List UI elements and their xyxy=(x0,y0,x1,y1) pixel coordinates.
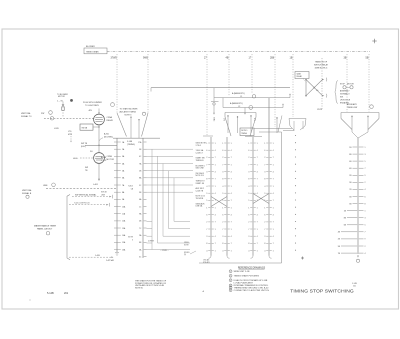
svg-text:7: 7 xyxy=(264,229,265,231)
svg-text:NOTE B.: NOTE B. xyxy=(135,288,143,290)
connector bar xyxy=(113,137,160,139)
svg-text:4: 4 xyxy=(215,150,216,152)
svg-text:5: 5 xyxy=(365,161,366,163)
svg-text:(SEE NOTE 2): (SEE NOTE 2) xyxy=(315,67,328,69)
svg-text:TIMING: TIMING xyxy=(241,133,248,135)
wire long vertical xyxy=(281,132,283,263)
svg-text:6: 6 xyxy=(206,215,207,217)
svg-text:6: 6 xyxy=(248,215,249,217)
svg-text:5: 5 xyxy=(230,287,231,289)
wire drop 4B xyxy=(228,54,230,96)
svg-text:1: 1 xyxy=(231,229,232,231)
svg-text:TO LIGHT REPL: TO LIGHT REPL xyxy=(85,105,99,107)
svg-text:7: 7 xyxy=(273,222,274,224)
svg-text:1: 1 xyxy=(273,186,274,188)
svg-text:4: 4 xyxy=(273,193,274,195)
svg-text:1: 1 xyxy=(215,250,216,252)
wire top dashed bus xyxy=(107,51,370,53)
wire power dashed xyxy=(44,117,94,119)
svg-text:1: 1 xyxy=(257,164,258,166)
svg-text:3: 3 xyxy=(365,218,366,220)
wire drop 27 xyxy=(206,54,208,136)
svg-text:1: 1 xyxy=(257,143,258,145)
svg-text:SW 4B: SW 4B xyxy=(101,192,107,194)
svg-text:RELAY: RELAY xyxy=(107,119,114,122)
svg-text:TIMING START FIXTURES: TIMING START FIXTURES xyxy=(234,275,260,278)
svg-text:2B6: 2B6 xyxy=(270,57,275,60)
svg-text:3: 3 xyxy=(264,236,265,238)
svg-text:REFERENCE DRAWINGS: REFERENCE DRAWINGS xyxy=(238,266,266,269)
wire elbows top right xyxy=(254,127,292,129)
wire drop 37W5 xyxy=(116,54,118,113)
svg-text:(TIMING): (TIMING) xyxy=(127,144,135,146)
transfer contacts X xyxy=(305,79,307,96)
svg-text:9: 9 xyxy=(206,193,207,195)
svg-text:SW TB: SW TB xyxy=(81,143,88,145)
svg-text:UNTOGGLE: UNTOGGLE xyxy=(340,100,351,102)
svg-text:NOTE 5: NOTE 5 xyxy=(241,130,247,132)
svg-text:5-14B LT: 5-14B LT xyxy=(196,152,204,154)
svg-text:7: 7 xyxy=(273,243,274,245)
svg-text:TIMING STOP: TIMING STOP xyxy=(315,61,328,63)
box blower timing gear xyxy=(84,48,107,54)
svg-text:1: 1 xyxy=(257,229,258,231)
svg-text:LINE 2A: LINE 2A xyxy=(196,205,203,208)
svg-text:3: 3 xyxy=(365,154,366,156)
svg-text:1-4P 5A1: 1-4P 5A1 xyxy=(106,259,114,262)
svg-text:7: 7 xyxy=(365,168,366,170)
svg-text:4: 4 xyxy=(264,250,265,252)
svg-text:8: 8 xyxy=(206,179,207,181)
svg-text:1: 1 xyxy=(273,207,274,209)
svg-text:4: 4 xyxy=(257,236,258,238)
svg-text:1: 1 xyxy=(264,207,265,209)
svg-text:3: 3 xyxy=(248,236,249,238)
svg-text:4: 4 xyxy=(231,215,232,217)
cable ladder W1 xyxy=(114,138,126,252)
svg-text:1: 1 xyxy=(222,143,223,145)
wire bus row 1 xyxy=(151,87,290,89)
svg-text:1: 1 xyxy=(273,229,274,231)
svg-text:1: 1 xyxy=(264,143,265,145)
svg-text:7: 7 xyxy=(222,229,223,231)
svg-text:2: 2 xyxy=(264,157,265,159)
svg-text:7: 7 xyxy=(215,222,216,224)
svg-text:1: 1 xyxy=(231,250,232,252)
bracket maintenance group xyxy=(67,195,70,260)
svg-text:T-505 CONTROL B: T-505 CONTROL B xyxy=(74,202,90,204)
svg-text:BLOWER: BLOWER xyxy=(86,46,95,48)
svg-text:1: 1 xyxy=(215,207,216,209)
svg-text:9: 9 xyxy=(365,175,366,177)
svg-text:4: 4 xyxy=(215,215,216,217)
wire dotted continuation xyxy=(295,135,296,251)
svg-text:T-BLK: T-BLK xyxy=(128,186,134,188)
svg-text:2: 2 xyxy=(248,157,249,159)
svg-text:9: 9 xyxy=(264,193,265,195)
wire arrow to relay xyxy=(98,109,100,114)
svg-text:4: 4 xyxy=(215,236,216,238)
svg-text:7: 7 xyxy=(215,179,216,181)
wire row memory 1 xyxy=(214,97,290,99)
svg-text:6: 6 xyxy=(264,150,265,152)
svg-text:4: 4 xyxy=(273,150,274,152)
svg-text:MAINTENANCE TIMER: MAINTENANCE TIMER xyxy=(34,224,57,227)
svg-text:7: 7 xyxy=(264,164,265,166)
svg-text:3: 3 xyxy=(132,240,133,242)
wire relay down xyxy=(98,125,100,153)
svg-text:MOTOR: MOTOR xyxy=(107,159,115,161)
svg-text:SWITCH RELAY: SWITCH RELAY xyxy=(314,63,329,66)
svg-text:7: 7 xyxy=(215,243,216,245)
wire drop 3B xyxy=(346,54,348,112)
svg-text:5-14B: 5-14B xyxy=(47,292,54,295)
wire drop 2B6 xyxy=(274,54,276,127)
svg-text:9W5: 9W5 xyxy=(143,57,149,60)
svg-text:1: 1 xyxy=(215,229,216,231)
svg-text:VERTICAL: VERTICAL xyxy=(21,112,32,115)
svg-text:8: 8 xyxy=(222,243,223,245)
svg-text:⊘SW: ⊘SW xyxy=(54,127,59,130)
motor CR5B xyxy=(94,153,105,164)
label column wires xyxy=(196,143,207,208)
svg-text:4: 4 xyxy=(273,236,274,238)
svg-text:1: 1 xyxy=(257,250,258,252)
svg-text:NOTE 3 B: NOTE 3 B xyxy=(196,175,205,177)
svg-text:1B: 1B xyxy=(290,57,293,60)
svg-text:2: 2 xyxy=(222,157,223,159)
svg-text:4: 4 xyxy=(365,253,366,255)
svg-text:6: 6 xyxy=(230,290,231,292)
svg-text:7: 7 xyxy=(273,200,274,202)
svg-text:7: 7 xyxy=(273,157,274,159)
svg-text:6: 6 xyxy=(264,215,265,217)
svg-text:1: 1 xyxy=(222,207,223,209)
svg-text:MOTOR: MOTOR xyxy=(347,84,354,86)
svg-text:5-14B: 5-14B xyxy=(352,283,358,285)
svg-text:4: 4 xyxy=(257,215,258,217)
terminal strip TS4 xyxy=(264,98,273,256)
svg-text:4: 4 xyxy=(231,172,232,174)
svg-text:A (MEMORY): A (MEMORY) xyxy=(232,92,245,95)
svg-text:7: 7 xyxy=(215,200,216,202)
svg-text:WIRE UNIT 5-1B: WIRE UNIT 5-1B xyxy=(234,271,250,273)
svg-text:1: 1 xyxy=(215,164,216,166)
svg-text:2: 2 xyxy=(206,157,207,159)
svg-text:PW: PW xyxy=(41,113,44,115)
note box xyxy=(240,128,254,136)
svg-text:7: 7 xyxy=(257,157,258,159)
svg-text:-BLK-: -BLK- xyxy=(73,158,78,160)
wire drop 17 xyxy=(251,54,253,94)
ground ladder bottom xyxy=(115,252,119,254)
wire crossover X2 xyxy=(253,194,269,204)
svg-text:9: 9 xyxy=(248,193,249,195)
svg-text:8: 8 xyxy=(248,179,249,181)
svg-text:NOTE: NOTE xyxy=(128,237,134,239)
svg-text:7: 7 xyxy=(231,243,232,245)
svg-text:1: 1 xyxy=(365,210,366,212)
svg-text:LT15R: LT15R xyxy=(101,160,107,162)
svg-text:LINE: LINE xyxy=(43,185,48,187)
svg-text:MTR: MTR xyxy=(68,134,73,136)
svg-text:TIMING GEAR: TIMING GEAR xyxy=(86,50,99,53)
svg-text:TB 5W1B: TB 5W1B xyxy=(196,198,204,200)
wire crossover X1 xyxy=(211,197,227,207)
terminal strip TS1 xyxy=(206,137,215,256)
connector housing J3 xyxy=(289,118,306,120)
wire stubs xyxy=(213,88,215,98)
svg-text:37W5: 37W5 xyxy=(111,57,118,60)
svg-text:AUX ASSY TIMING: AUX ASSY TIMING xyxy=(120,110,137,113)
svg-text:4: 4 xyxy=(215,172,216,174)
svg-text:START 4B: START 4B xyxy=(196,182,205,185)
svg-text:1: 1 xyxy=(206,143,207,145)
svg-text:1: 1 xyxy=(273,250,274,252)
ground strip bottom xyxy=(357,256,359,258)
svg-text:L-401: L-401 xyxy=(93,184,98,186)
svg-text:8: 8 xyxy=(222,179,223,181)
svg-text:A 200: A 200 xyxy=(104,133,109,136)
svg-text:4: 4 xyxy=(215,193,216,195)
svg-text:9: 9 xyxy=(365,239,366,241)
svg-text:TIMING STOP SWITCHING: TIMING STOP SWITCHING xyxy=(290,288,354,294)
svg-text:ASSEMBLY: ASSEMBLY xyxy=(340,90,350,93)
svg-text:7: 7 xyxy=(257,222,258,224)
svg-text:PANEL LAYOUT: PANEL LAYOUT xyxy=(37,228,53,231)
svg-text:7: 7 xyxy=(231,179,232,181)
svg-text:8: 8 xyxy=(248,243,249,245)
svg-text:5: 5 xyxy=(222,200,223,202)
relay box K2 xyxy=(295,72,309,79)
wire drop 1B xyxy=(292,54,294,117)
svg-text:2: 2 xyxy=(230,276,231,278)
svg-text:4 WIRE: 4 WIRE xyxy=(148,240,155,242)
svg-text:1: 1 xyxy=(231,143,232,145)
svg-text:4: 4 xyxy=(231,193,232,195)
svg-text:7: 7 xyxy=(365,232,366,234)
svg-text:7: 7 xyxy=(206,229,207,231)
wire drop 9W5 xyxy=(147,54,149,113)
wire harness nest xyxy=(147,149,194,249)
svg-text:3: 3 xyxy=(264,172,265,174)
svg-text:SIGNAL B: SIGNAL B xyxy=(22,192,32,195)
svg-text:7: 7 xyxy=(257,179,258,181)
svg-text:3B: 3B xyxy=(344,57,347,60)
svg-text:5: 5 xyxy=(365,225,366,227)
svg-text:4: 4 xyxy=(231,150,232,152)
connector funnel P1 xyxy=(117,113,127,137)
svg-text:SW 5B: SW 5B xyxy=(82,127,88,129)
svg-text:AUXILIARY: AUXILIARY xyxy=(347,103,358,106)
svg-text:6: 6 xyxy=(222,215,223,217)
node junction J1 xyxy=(98,145,100,147)
svg-text:3: 3 xyxy=(248,172,249,174)
svg-text:7: 7 xyxy=(248,229,249,231)
terminal strip TS5 xyxy=(338,132,368,255)
svg-text:NOTE 3: NOTE 3 xyxy=(125,115,132,117)
wire drop 3G xyxy=(321,58,323,110)
terminal strip TB5 xyxy=(138,138,146,258)
svg-text:6: 6 xyxy=(222,150,223,152)
svg-text:8: 8 xyxy=(206,243,207,245)
svg-text:5: 5 xyxy=(248,200,249,202)
resistor R1 xyxy=(62,102,64,118)
svg-text:1: 1 xyxy=(273,164,274,166)
node plus marker top right xyxy=(372,40,376,42)
strip bottom hooks xyxy=(209,256,212,259)
svg-text:7: 7 xyxy=(248,164,249,166)
svg-text:3: 3 xyxy=(222,236,223,238)
svg-text:1: 1 xyxy=(231,164,232,166)
svg-text:1: 1 xyxy=(248,143,249,145)
svg-text:1: 1 xyxy=(230,271,231,273)
bracket right xyxy=(335,81,338,104)
svg-text:CONNECTED TO AUX PWR UNIT LN: CONNECTED TO AUX PWR UNIT LN xyxy=(234,289,270,292)
svg-text:VERTICAL: VERTICAL xyxy=(22,189,33,192)
svg-text:4: 4 xyxy=(248,250,249,252)
svg-text:(LBL): (LBL) xyxy=(81,146,86,148)
svg-text:4: 4 xyxy=(222,186,223,188)
wire drop 5B xyxy=(368,54,370,112)
svg-text:4: 4 xyxy=(365,189,366,191)
svg-text:201: 201 xyxy=(64,292,69,295)
svg-text:1: 1 xyxy=(215,186,216,188)
svg-text:5-40B: 5-40B xyxy=(95,255,101,257)
svg-text:SW: SW xyxy=(85,167,88,169)
svg-text:4: 4 xyxy=(257,193,258,195)
svg-text:AW5B: AW5B xyxy=(101,156,107,159)
svg-text:CR5B: CR5B xyxy=(107,156,113,158)
svg-text:7: 7 xyxy=(231,222,232,224)
svg-text:2: 2 xyxy=(222,222,223,224)
wire line dashed xyxy=(46,188,117,190)
svg-text:8: 8 xyxy=(264,179,265,181)
svg-text:RELAY: RELAY xyxy=(297,75,303,78)
terminal strip TS2 xyxy=(222,137,231,256)
svg-text:9: 9 xyxy=(222,193,223,195)
svg-text:SW VERTICAL SIGNAL: SW VERTICAL SIGNAL xyxy=(75,194,97,197)
svg-text:2: 2 xyxy=(264,222,265,224)
svg-text:PLUG WITH JUMPER: PLUG WITH JUMPER xyxy=(83,102,102,104)
svg-text:TIMING B: TIMING B xyxy=(196,160,205,162)
contact plug P2 xyxy=(211,101,219,103)
svg-text:1: 1 xyxy=(215,143,216,145)
wire row memory 2 xyxy=(223,107,283,109)
svg-text:3: 3 xyxy=(206,172,207,174)
svg-text:4 — NO: 4 — NO xyxy=(57,100,64,102)
svg-text:4: 4 xyxy=(222,250,223,252)
svg-text:4T5: 4T5 xyxy=(253,118,255,121)
svg-text:4: 4 xyxy=(257,150,258,152)
svg-text:6: 6 xyxy=(365,196,366,198)
connector pin P3 xyxy=(276,117,278,133)
svg-text:7: 7 xyxy=(222,164,223,166)
svg-text:7: 7 xyxy=(257,243,258,245)
svg-text:8: 8 xyxy=(365,203,366,205)
svg-text:4: 4 xyxy=(264,186,265,188)
svg-text:8: 8 xyxy=(264,243,265,245)
connector housing J2 xyxy=(225,112,256,114)
svg-text:MOTOR: MOTOR xyxy=(58,96,65,98)
svg-text:TO START BLOWER: TO START BLOWER xyxy=(120,107,138,110)
svg-text:3 TB-5: 3 TB-5 xyxy=(196,145,201,147)
svg-text:LOYAL PLATE ASSY: LOYAL PLATE ASSY xyxy=(234,281,254,284)
svg-text:3: 3 xyxy=(206,236,207,238)
svg-text:STB APL: STB APL xyxy=(203,261,210,264)
svg-text:6: 6 xyxy=(206,150,207,152)
svg-text:3: 3 xyxy=(230,280,231,282)
svg-text:4: 4 xyxy=(273,215,274,217)
svg-text:4: 4 xyxy=(257,172,258,174)
switch box SW5 xyxy=(80,124,93,130)
svg-text:7: 7 xyxy=(215,157,216,159)
svg-text:1: 1 xyxy=(257,207,258,209)
svg-text:NORMALLY: NORMALLY xyxy=(340,93,351,96)
svg-text:— 5W2B —: — 5W2B — xyxy=(160,250,169,252)
svg-text:5-14B TB: 5-14B TB xyxy=(196,190,204,192)
svg-text:1: 1 xyxy=(257,186,258,188)
svg-text:7: 7 xyxy=(273,179,274,181)
svg-text:35A5: 35A5 xyxy=(213,117,216,121)
svg-text:5B: 5B xyxy=(366,57,369,60)
relay CR3A coil xyxy=(94,114,105,125)
svg-text:1: 1 xyxy=(206,207,207,209)
svg-text:1: 1 xyxy=(248,207,249,209)
svg-text:501: 501 xyxy=(353,286,356,288)
svg-text:7: 7 xyxy=(206,164,207,166)
svg-text:CR3A: CR3A xyxy=(107,116,113,119)
svg-text:2: 2 xyxy=(206,222,207,224)
svg-text:1: 1 xyxy=(273,143,274,145)
svg-text:4: 4 xyxy=(231,236,232,238)
svg-text:1: 1 xyxy=(365,147,366,149)
svg-text:1: 1 xyxy=(231,207,232,209)
svg-text:2: 2 xyxy=(248,222,249,224)
svg-text:7: 7 xyxy=(231,200,232,202)
svg-text:4: 4 xyxy=(248,186,249,188)
svg-text:5WTB: 5WTB xyxy=(317,109,323,111)
svg-text:TIMING SW: TIMING SW xyxy=(347,107,357,109)
connector housing J4 xyxy=(341,112,379,114)
svg-text:5W2 LINE: 5W2 LINE xyxy=(196,168,205,170)
svg-text:6: 6 xyxy=(248,150,249,152)
svg-text:4B: 4B xyxy=(226,57,229,60)
svg-text:5: 5 xyxy=(206,200,207,202)
svg-text:SIGNAL TO: SIGNAL TO xyxy=(21,115,32,118)
svg-text:4: 4 xyxy=(206,250,207,252)
svg-text:2: 2 xyxy=(365,246,366,248)
svg-text:1: 1 xyxy=(231,186,232,188)
svg-text:A (MEMORY): A (MEMORY) xyxy=(230,102,243,105)
svg-text:3: 3 xyxy=(222,172,223,174)
svg-text:2T3: 2T3 xyxy=(223,118,225,121)
svg-text:STOP: STOP xyxy=(340,84,346,86)
svg-text:4: 4 xyxy=(206,186,207,188)
terminal strip TS3 xyxy=(248,137,257,256)
svg-text:2: 2 xyxy=(365,182,366,184)
svg-text:SW.: SW. xyxy=(340,97,344,99)
node plus small xyxy=(301,257,304,259)
svg-text:(N LEVEL): (N LEVEL) xyxy=(104,137,113,139)
svg-text:4: 4 xyxy=(273,172,274,174)
svg-text:7: 7 xyxy=(231,157,232,159)
svg-text:5-14B: 5-14B xyxy=(127,141,133,143)
